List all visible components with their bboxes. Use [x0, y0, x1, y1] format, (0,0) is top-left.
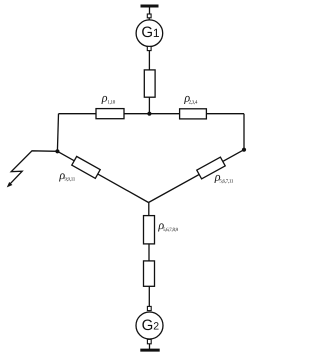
svg-text:G: G — [141, 24, 153, 41]
resistor R5,6,7,8,9 — [144, 216, 155, 244]
wire (node C to resistor) — [148, 203, 150, 216]
terminal square (G2 bottom pin) — [147, 339, 151, 343]
remote earth arrowhead — [7, 182, 13, 187]
wire (left diagonal) — [57, 151, 148, 202]
ground (top terminal bar) — [141, 5, 159, 8]
svg-text:1,10: 1,10 — [107, 99, 115, 105]
wire (horizontal bus) — [59, 113, 245, 115]
wire (node A to remote earth) — [9, 151, 57, 185]
terminal square (G1 top pin) — [147, 14, 151, 18]
wire (resistor to bus) — [148, 97, 150, 114]
wire (left drop) — [57, 114, 58, 152]
wire (between bottom resistors) — [148, 244, 150, 261]
ground (bottom terminal bar) — [140, 349, 159, 352]
node (bus junction) — [147, 112, 151, 116]
resistor R2,3,4 — [180, 109, 207, 119]
generator G2 — [136, 312, 163, 339]
wire (G2 to bottom bar) — [149, 344, 151, 350]
node B (right) — [242, 148, 246, 152]
node A (left) — [55, 149, 59, 153]
svg-text:5,6,7,8,9: 5,6,7,8,9 — [163, 227, 179, 233]
resistor (G1 branch) — [144, 70, 155, 97]
resistor R1,10 — [96, 109, 124, 119]
svg-text:2,3,4: 2,3,4 — [189, 99, 198, 105]
wire (top bar to G1 pin) — [149, 8, 151, 15]
svg-text:5,6,7,11: 5,6,7,11 — [219, 178, 233, 184]
wire (right diagonal) — [149, 150, 245, 203]
resistor R9,9,11 (left diagonal) — [72, 156, 100, 178]
svg-text:9,9,11: 9,9,11 — [64, 177, 75, 183]
wire (resistor to G2) — [148, 286, 150, 306]
svg-text:1: 1 — [153, 26, 160, 40]
svg-text:G: G — [142, 317, 154, 334]
wire (right drop) — [243, 114, 245, 150]
resistor (lower G2 branch) — [144, 261, 155, 286]
resistor R5,6,7,11 (right diagonal) — [197, 157, 225, 179]
wire (G1 to resistor) — [148, 51, 150, 70]
terminal square (G2 top pin) — [147, 306, 151, 310]
generator G1 — [136, 20, 163, 47]
svg-text:2: 2 — [153, 321, 159, 333]
terminal square (G1 bottom pin) — [147, 46, 151, 50]
wire (pin neck) — [148, 18, 150, 20]
